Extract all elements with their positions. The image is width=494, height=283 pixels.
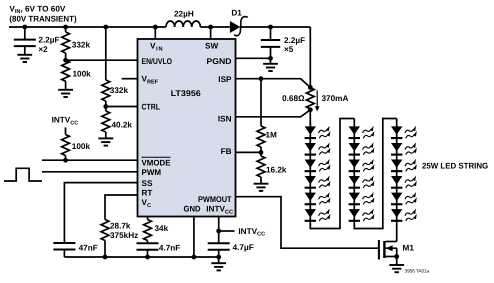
capacitor C4 4.7uF <box>218 250 220 257</box>
node VIN-cap <box>22 25 27 30</box>
wire RT <box>105 195 138 220</box>
LED string 1 <box>305 123 331 226</box>
capacitor C4 4.7uF <box>208 243 230 250</box>
resistor R6 28.7k <box>104 241 106 258</box>
LED D4 <box>305 159 331 172</box>
svg-text:SS: SS <box>142 179 153 188</box>
resistor R9 1M <box>257 126 265 147</box>
wire PGND <box>236 57 271 59</box>
svg-text:VMODE: VMODE <box>142 159 172 168</box>
wire PWM <box>42 171 138 173</box>
LED D3 <box>305 142 331 155</box>
resistor R6 28.7k <box>101 220 109 241</box>
resistor R2 100k <box>62 60 70 81</box>
wire PWMOUT <box>236 197 379 249</box>
LED D11 <box>349 159 375 172</box>
resistor R10 16.2k <box>260 152 262 156</box>
IC pin labels <box>142 42 234 216</box>
LED D14 <box>349 209 375 222</box>
pin VMODE overline <box>142 156 171 158</box>
resistor R3 332k <box>105 27 107 80</box>
transistor M1 body line <box>386 247 397 249</box>
wire 1M branch <box>260 79 262 126</box>
svg-text:1M: 1M <box>266 131 278 140</box>
ground M1 source <box>389 265 404 272</box>
wire SW pin <box>210 27 212 39</box>
svg-text:370mA: 370mA <box>322 94 349 103</box>
LED D2 <box>305 126 331 139</box>
node VIN pin <box>153 25 158 30</box>
wire string3 bottom to M1 drain <box>386 241 397 243</box>
svg-text:375kHz: 375kHz <box>110 231 138 240</box>
svg-text:332k: 332k <box>72 40 91 49</box>
capacitor C2 47nF <box>53 243 75 250</box>
node CTRL <box>103 104 108 109</box>
svg-text:(80V TRANSIENT): (80V TRANSIENT) <box>9 14 77 23</box>
svg-text:0.68Ω: 0.68Ω <box>282 94 305 103</box>
svg-text:×5: ×5 <box>284 45 294 54</box>
LED D21 <box>391 209 417 222</box>
node ISP-1M <box>259 76 264 81</box>
resistor R8 0.68 ohm <box>306 88 314 109</box>
svg-text:LT3956: LT3956 <box>171 89 202 98</box>
node FB <box>259 150 264 155</box>
svg-text:47nF: 47nF <box>79 244 98 253</box>
ground stub below rail <box>218 257 220 263</box>
resistor R4 40.2k <box>102 111 110 132</box>
wire FB <box>236 151 262 153</box>
LED D12 <box>349 175 375 188</box>
node PGND <box>268 56 273 61</box>
svg-text:PWMOUT: PWMOUT <box>198 195 232 204</box>
370mA arrow <box>316 90 318 107</box>
resistor R4 40.2k <box>105 107 107 112</box>
wire string2 bottom to riser2 <box>354 119 396 229</box>
wire SW to diode <box>200 26 230 28</box>
svg-text:34k: 34k <box>155 224 169 233</box>
node sense bottom <box>308 107 313 112</box>
node VIN-332k <box>63 25 68 30</box>
wire VIN pin <box>154 27 156 39</box>
svg-text:M1: M1 <box>403 244 415 253</box>
LED D10 <box>349 142 375 155</box>
svg-text:16.2k: 16.2k <box>266 166 287 175</box>
svg-text:CTRL: CTRL <box>142 102 161 111</box>
capacitor C1 2.2uF input <box>14 40 36 47</box>
wire bottom rail <box>64 256 218 258</box>
svg-text:100k: 100k <box>73 70 92 79</box>
capacitor C5 2.2uF x5 output <box>270 27 272 40</box>
node rail GND <box>192 255 197 260</box>
LED D18 <box>391 159 417 172</box>
wire string1 bottom to riser1 <box>310 119 354 229</box>
resistor R10 16.2k <box>257 156 265 177</box>
node rail cap <box>216 255 221 260</box>
resistor R7 34k <box>147 241 149 244</box>
svg-text:D1: D1 <box>231 8 242 17</box>
capacitor C5 2.2uF output <box>261 40 280 47</box>
wire EN/UVLO <box>66 59 138 61</box>
capacitor C2 47nF <box>63 250 65 258</box>
node rail 28.7k <box>103 255 108 260</box>
svg-text:40.2k: 40.2k <box>112 121 133 130</box>
LED D5 <box>305 175 331 188</box>
wire sense to LED string 1 <box>309 110 311 127</box>
node VOUT <box>268 25 273 30</box>
wire CTRL <box>106 106 138 108</box>
wire diode to output node <box>241 26 310 28</box>
transistor M1 source line <box>386 256 397 258</box>
node INTVCC tap <box>216 229 221 234</box>
ground 100k EN <box>58 90 73 97</box>
svg-text:28.7k: 28.7k <box>110 221 131 230</box>
LED D9 <box>349 126 375 139</box>
capacitor C3 4.7nF <box>147 250 149 257</box>
LED D6 <box>305 192 331 205</box>
wire VMODE <box>42 159 138 161</box>
node EN <box>63 58 68 63</box>
svg-text:PWM: PWM <box>142 168 162 177</box>
transistor M1 body arrow <box>386 245 393 251</box>
IC U1 LT3956 <box>138 39 236 217</box>
svg-text:ISP: ISP <box>218 75 232 84</box>
LED D16 <box>391 126 417 139</box>
LED string 3 <box>391 119 417 242</box>
resistor R1 332k <box>65 27 67 32</box>
capacitor C3 4.7nF <box>137 243 159 250</box>
svg-text:4.7µF: 4.7µF <box>233 243 254 252</box>
resistor R5 100k <box>62 135 70 156</box>
svg-text:2.2µF: 2.2µF <box>284 36 305 45</box>
svg-text:GND: GND <box>184 205 201 214</box>
LED D13 <box>349 192 375 205</box>
LED D17 <box>391 142 417 155</box>
svg-text:332k: 332k <box>110 86 129 95</box>
ground input cap <box>17 55 32 62</box>
svg-text:EN/UVLO: EN/UVLO <box>142 57 173 66</box>
ground 40.2k <box>98 138 113 145</box>
LED D7 <box>305 209 331 222</box>
wire VREF stub <box>122 78 138 80</box>
svg-text:ISN: ISN <box>218 115 232 124</box>
wire VC pin down <box>147 217 149 220</box>
wire INTVCC label stub <box>219 230 235 232</box>
diode D1 <box>230 21 240 33</box>
transistor M1 channel bar <box>383 241 385 258</box>
svg-text:3956 TA01a: 3956 TA01a <box>405 268 430 273</box>
ground output cap <box>263 64 278 71</box>
resistor R9 1M <box>260 147 262 152</box>
wire VIN rail <box>9 26 166 28</box>
wire INTVCC stub to 100k <box>65 128 67 135</box>
ground INTVCC cap <box>211 263 226 270</box>
resistor R7 34k <box>144 220 152 241</box>
node SW pin <box>208 25 213 30</box>
node VMODE <box>63 158 68 163</box>
LED string 2 <box>349 119 375 227</box>
svg-text:25W LED STRING: 25W LED STRING <box>422 161 488 170</box>
wire GND pin down <box>193 217 195 258</box>
svg-text:2.2µF: 2.2µF <box>38 36 59 45</box>
LED D19 <box>391 175 417 188</box>
svg-text:100k: 100k <box>72 142 91 151</box>
pwm pulse waveform <box>4 168 42 181</box>
resistor R2 100k <box>65 81 67 89</box>
wire ISN <box>236 110 311 117</box>
svg-text:RT: RT <box>142 188 153 197</box>
node rail VC <box>145 255 150 260</box>
wire output down to sense resistor <box>309 27 311 88</box>
svg-text:SW: SW <box>205 42 218 51</box>
wire SS <box>64 183 137 243</box>
svg-text:×2: ×2 <box>38 45 48 54</box>
resistor R3 332k <box>102 80 110 101</box>
svg-text:PGND: PGND <box>207 57 232 66</box>
node sense top <box>308 85 313 90</box>
wire ISP <box>236 79 311 88</box>
svg-text:22µH: 22µH <box>174 10 194 19</box>
wire INTVCC pin down <box>218 217 220 244</box>
resistor R1 332k <box>62 32 70 53</box>
node M1 source <box>394 254 399 259</box>
ground 16.2k <box>254 184 269 191</box>
svg-text:FB: FB <box>221 147 232 156</box>
inductor L1 22uH <box>166 21 200 27</box>
svg-text:4.7nF: 4.7nF <box>159 244 180 253</box>
node VIN-332k2 <box>103 25 108 30</box>
transistor M1 gate bar <box>378 240 380 260</box>
capacitor C1 2.2uF x2 input <box>24 27 26 40</box>
resistor R5 100k <box>65 156 67 161</box>
LED D20 <box>391 192 417 205</box>
